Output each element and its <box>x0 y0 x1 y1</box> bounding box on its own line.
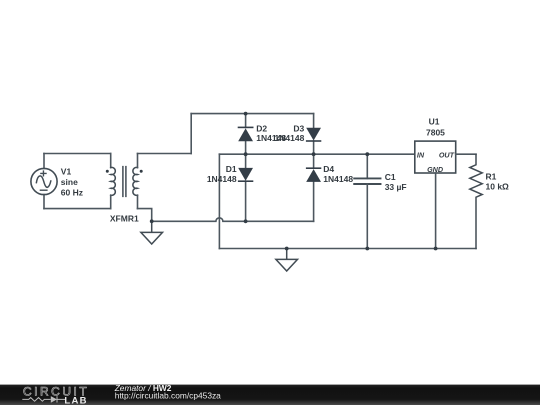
svg-text:1N4148: 1N4148 <box>275 133 305 143</box>
svg-text:7805: 7805 <box>426 128 445 138</box>
regulator U1 box <box>415 141 456 173</box>
wire V1 left vertical top <box>43 154 45 169</box>
ground at transformer <box>141 221 163 244</box>
wire V1 left vertical bottom <box>43 195 45 209</box>
capacitor C1 top stub <box>366 154 368 178</box>
svg-text:V1: V1 <box>61 166 72 176</box>
transformer XFMR1 secondary coil <box>133 167 138 195</box>
wire bottom rail <box>219 248 476 250</box>
svg-text:OUT: OUT <box>439 151 455 160</box>
resistor R1 <box>470 154 482 248</box>
ground at bottom rail <box>276 249 298 272</box>
diode D1 <box>238 168 253 182</box>
svg-text:D3: D3 <box>293 124 304 134</box>
node top rail / D2 <box>244 112 248 116</box>
transformer XFMR1 primary stub bottom <box>110 195 112 208</box>
node bottom rail ground <box>285 247 289 251</box>
svg-text:U1: U1 <box>429 117 440 127</box>
transformer XFMR1 secondary stub bottom <box>137 195 139 208</box>
svg-text:D1: D1 <box>226 164 237 174</box>
node mid rail / C1 <box>365 152 369 156</box>
node bottom rail / U1 GND <box>434 247 438 251</box>
wire D1 bottom stub <box>245 181 247 221</box>
wire AC lower with hop <box>152 218 314 221</box>
node mid rail / D3-D4 <box>312 152 316 156</box>
svg-text:1N4148: 1N4148 <box>207 174 237 184</box>
node bottom rail / C1 <box>365 247 369 251</box>
svg-text:10 kΩ: 10 kΩ <box>486 182 510 192</box>
diode D2 <box>238 127 254 142</box>
wire U1 GND down <box>435 173 437 249</box>
diode D3 <box>306 128 321 142</box>
wire D2 bottom stub <box>245 141 247 154</box>
wire mid-rail drop to bottom rail <box>218 154 220 248</box>
svg-text:D4: D4 <box>323 164 334 174</box>
svg-text:60 Hz: 60 Hz <box>61 187 83 197</box>
wire mid rail <box>219 153 414 155</box>
wire V1 bottom horizontal <box>44 208 111 210</box>
svg-text:IN: IN <box>417 151 425 160</box>
transformer phase dots <box>106 170 143 173</box>
node mid rail / D2-D1 <box>244 152 248 156</box>
svg-text:XFMR1: XFMR1 <box>110 214 139 224</box>
wire D4 top stub <box>313 154 315 168</box>
voltage source V1 <box>31 168 57 194</box>
transformer XFMR1 core lines <box>123 167 126 197</box>
capacitor C1 <box>354 178 380 184</box>
capacitor C1 bottom stub <box>366 184 368 249</box>
svg-text:http://circuitlab.com/cp453za: http://circuitlab.com/cp453za <box>115 391 221 401</box>
wire secondary top to riser <box>138 153 192 155</box>
svg-text:D2: D2 <box>256 124 267 134</box>
svg-text:C1: C1 <box>385 172 396 182</box>
footer bar <box>0 385 540 405</box>
footer logo resistor-diode glyph <box>22 396 65 402</box>
svg-text:GND: GND <box>427 165 443 174</box>
node AC lower / D1 <box>244 219 248 223</box>
wire secondary bottom to ground node <box>138 209 152 222</box>
transformer XFMR1 primary stub top <box>110 154 112 168</box>
wire D3 bottom stub <box>313 141 315 154</box>
svg-text:1N4148: 1N4148 <box>323 174 353 184</box>
wire D1 top stub <box>245 154 247 168</box>
wire D4 bottom stub <box>313 182 315 221</box>
svg-text:LAB: LAB <box>64 395 87 405</box>
svg-text:sine: sine <box>61 177 78 187</box>
svg-text:R1: R1 <box>486 172 497 182</box>
wire top rail <box>191 113 313 115</box>
svg-text:33 µF: 33 µF <box>385 182 407 192</box>
transformer XFMR1 primary coil <box>111 167 116 195</box>
wire riser to top rail <box>190 114 192 154</box>
wire D3 column top stub <box>313 114 315 128</box>
diode D4 <box>306 167 321 182</box>
wire U1 OUT to R1 <box>456 153 476 155</box>
wire D2 column top stub <box>245 114 247 128</box>
node secondary ground <box>150 219 154 223</box>
transformer XFMR1 secondary stub top <box>137 154 139 168</box>
wire V1 top horizontal <box>44 153 111 155</box>
